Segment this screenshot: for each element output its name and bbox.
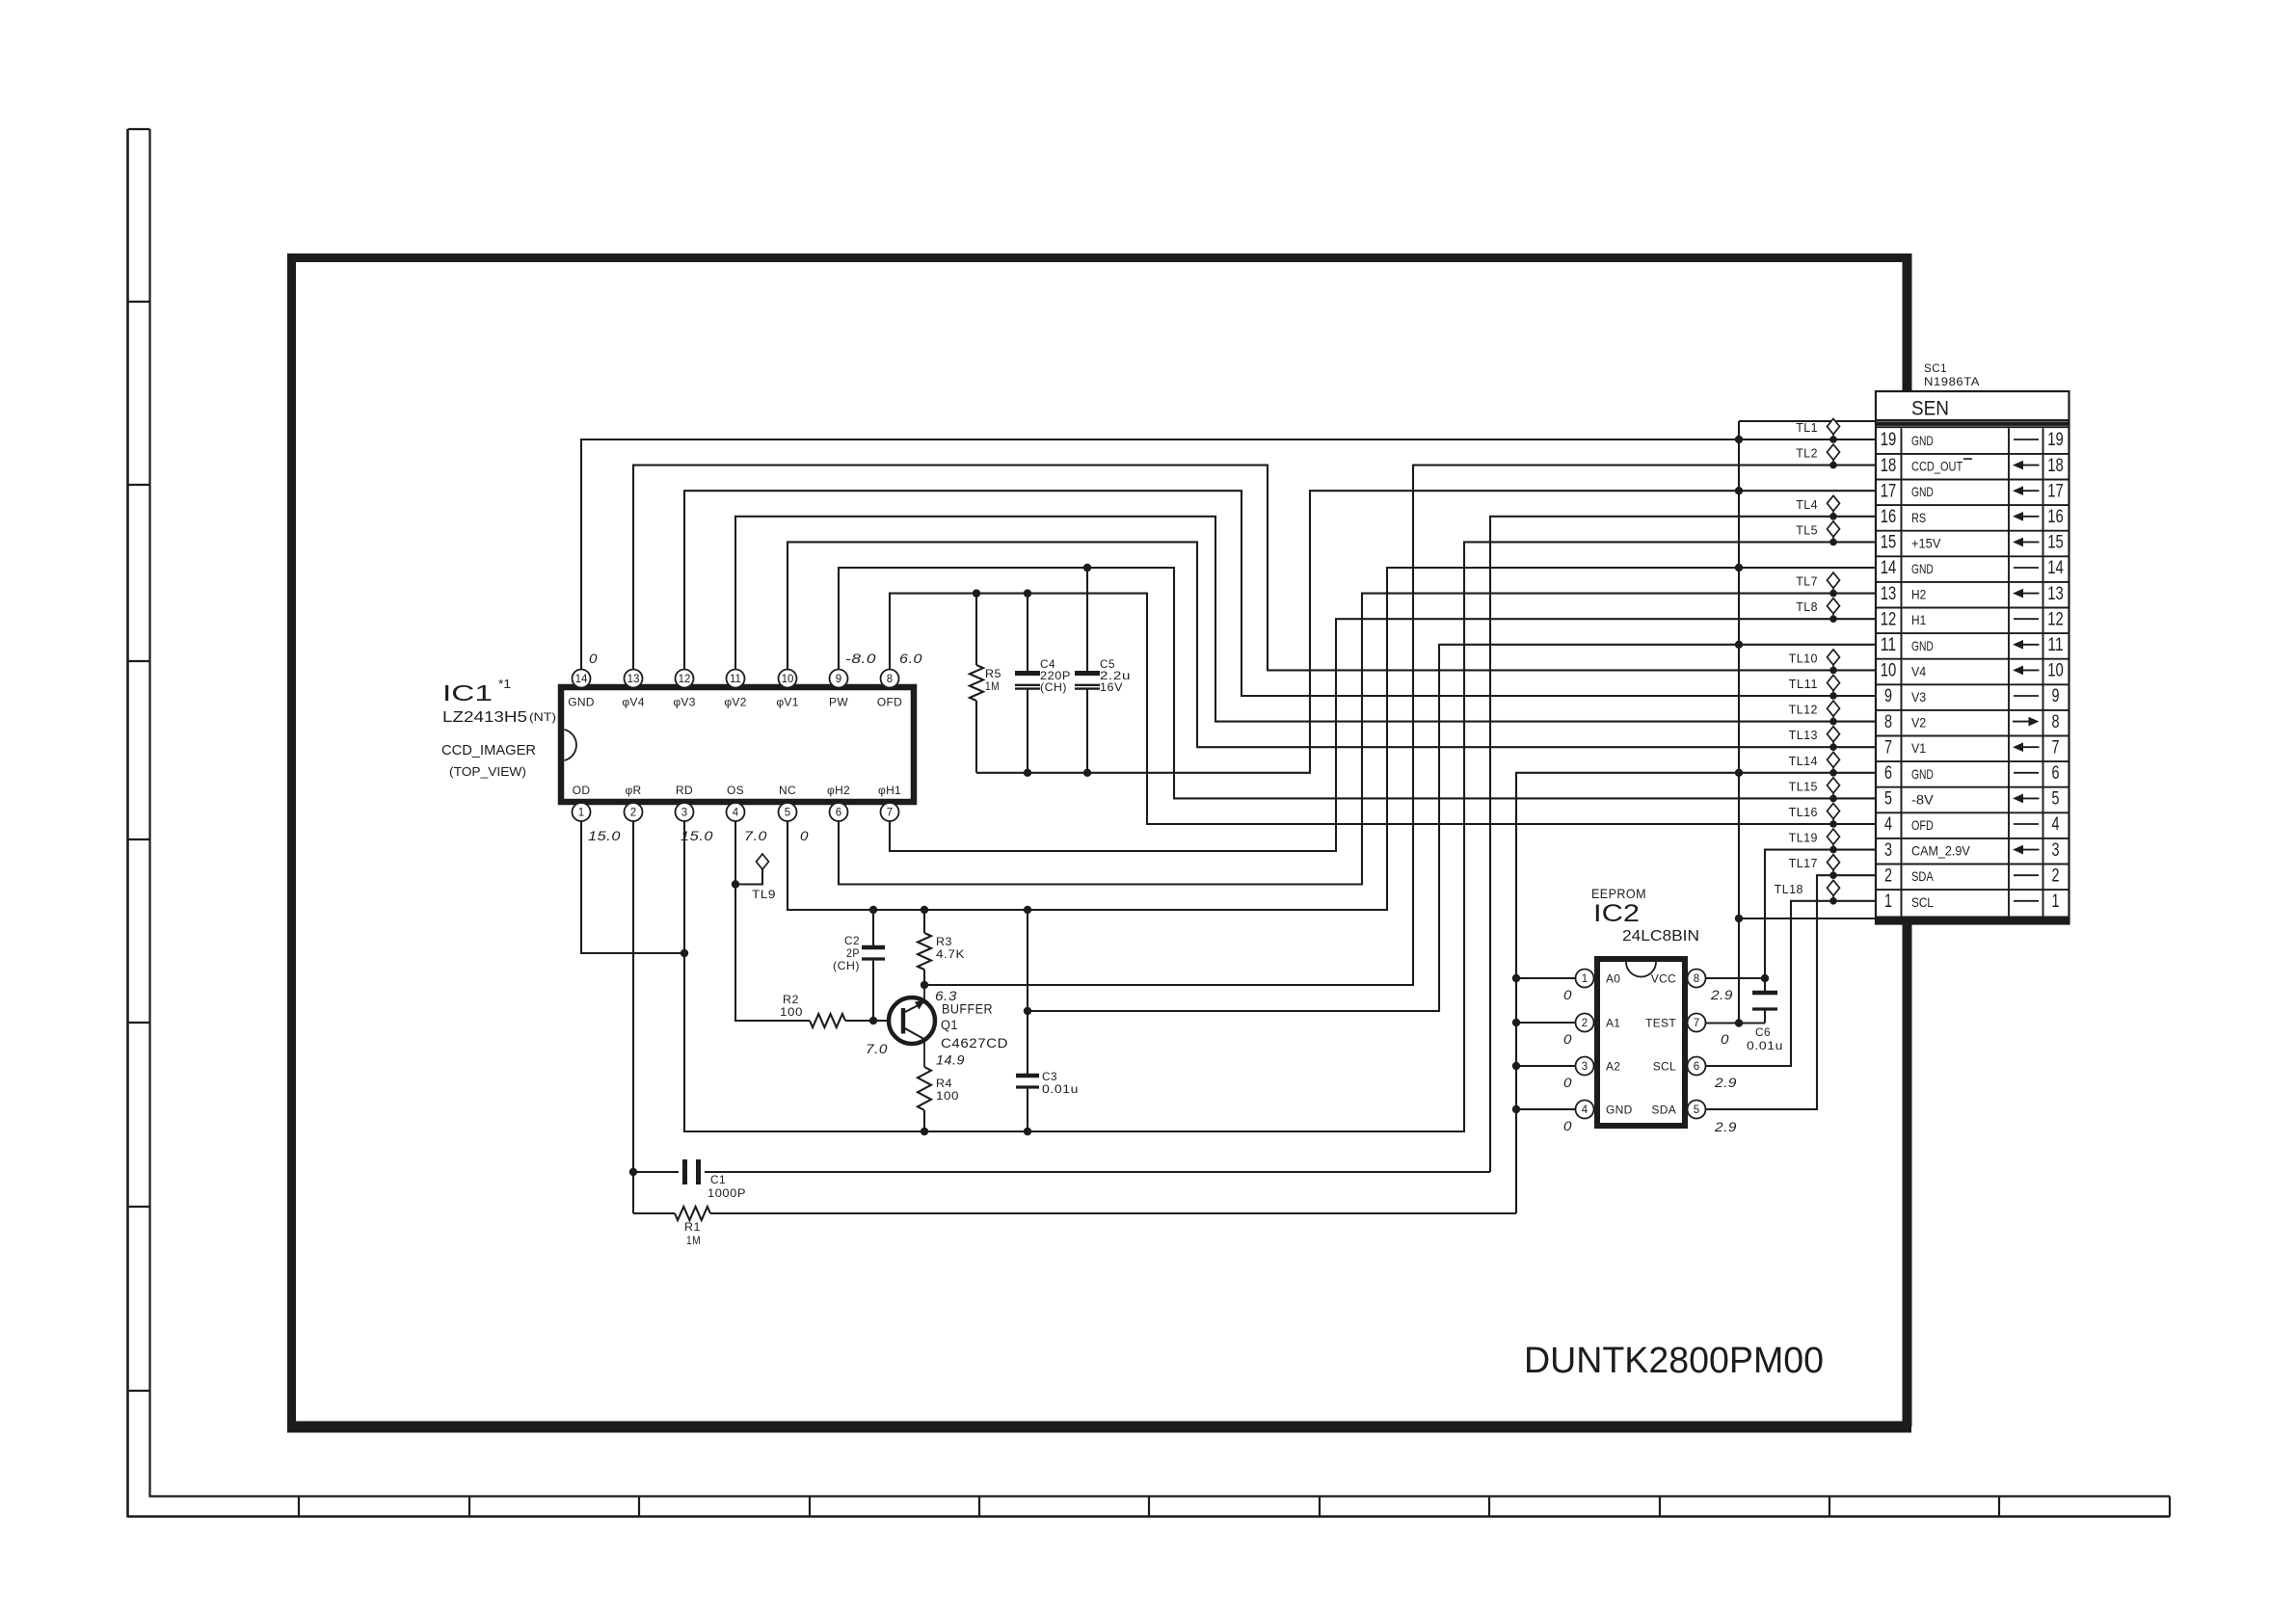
svg-text:5: 5 xyxy=(785,808,790,819)
svg-text:14: 14 xyxy=(1881,558,1897,578)
resistor R5 1M xyxy=(975,594,977,665)
svg-text:0: 0 xyxy=(800,828,809,843)
test point TL8 on SEN row 12 xyxy=(1828,599,1840,614)
IC2 pin 5 circle (SDA) xyxy=(1688,1101,1706,1119)
SEN row 17 direction mark xyxy=(2020,490,2040,492)
svg-text:A2: A2 xyxy=(1606,1060,1620,1074)
svg-text:12: 12 xyxy=(1881,609,1897,629)
wire R1 / IC2 ground to SEN row 6 GND xyxy=(1516,773,1876,1213)
IC2 pin 2 circle (A1) xyxy=(1576,1014,1594,1032)
svg-text:15.0: 15.0 xyxy=(681,828,713,843)
IC1 pin 6 circle (φH2) xyxy=(830,803,848,821)
svg-text:C1: C1 xyxy=(710,1173,726,1186)
svg-text:0: 0 xyxy=(1563,1031,1572,1047)
svg-text:2: 2 xyxy=(2052,865,2060,886)
svg-text:7: 7 xyxy=(2052,737,2060,758)
svg-text:3: 3 xyxy=(681,808,687,819)
svg-text:7.0: 7.0 xyxy=(744,828,767,843)
capacitor C6 0.01u xyxy=(1764,978,1766,993)
IC1 pin 11 circle (φV2) xyxy=(727,670,745,688)
svg-text:6: 6 xyxy=(2052,763,2060,784)
wire C1 to SEN row 16 RS xyxy=(1490,517,1876,1172)
SEN row 1 direction mark xyxy=(2014,900,2039,902)
svg-text:0.01u: 0.01u xyxy=(1747,1039,1783,1052)
test point TL10 on SEN row 10 xyxy=(1828,650,1840,665)
svg-text:φR: φR xyxy=(625,784,641,797)
svg-text:1000P: 1000P xyxy=(707,1186,746,1200)
svg-text:14: 14 xyxy=(2047,558,2064,578)
svg-text:(CH): (CH) xyxy=(833,959,860,972)
connector stem lower (border right side below SEN) xyxy=(1903,923,1912,1426)
wire IC1 pin11 phiV2 to SEN row 8 V2 xyxy=(735,517,1876,722)
svg-text:19: 19 xyxy=(2047,430,2064,450)
SEN row 19 direction mark xyxy=(2014,439,2039,440)
IC1 index notch xyxy=(565,730,576,760)
svg-text:SCL: SCL xyxy=(1911,894,1934,910)
svg-text:19: 19 xyxy=(1881,430,1897,450)
svg-text:TL16: TL16 xyxy=(1789,806,1818,819)
svg-text:4.7K: 4.7K xyxy=(936,947,965,961)
svg-text:2.9: 2.9 xyxy=(1714,1119,1737,1134)
wire IC1 pin6 phiH2 to SEN row 13 H2 xyxy=(839,594,1876,885)
svg-text:17: 17 xyxy=(2047,481,2064,501)
svg-text:8: 8 xyxy=(1694,973,1699,985)
svg-text:5: 5 xyxy=(1694,1104,1699,1116)
IC2 pin 4 circle (GND) xyxy=(1576,1101,1594,1119)
SEN row 18 direction mark xyxy=(2020,465,2040,466)
svg-text:NC: NC xyxy=(779,784,796,797)
test point TL18 on SEN row 1 xyxy=(1828,880,1840,895)
svg-text:2P: 2P xyxy=(846,946,860,960)
svg-text:SCL: SCL xyxy=(1653,1060,1676,1074)
wire IC1 pin8 OFD to SEN row 4 OFD xyxy=(890,594,1876,824)
SEN row 3 direction mark xyxy=(2020,849,2040,851)
svg-text:(NT): (NT) xyxy=(529,710,556,724)
svg-text:GND: GND xyxy=(1911,484,1934,499)
svg-text:2: 2 xyxy=(1884,865,1892,886)
wire IC1 pin3 RD / R4 / C3 rail to SEN row 15 +15V xyxy=(684,542,1876,1131)
svg-text:IC2: IC2 xyxy=(1593,900,1640,927)
svg-text:6: 6 xyxy=(836,808,841,819)
svg-text:4: 4 xyxy=(1884,814,1892,835)
svg-text:GND: GND xyxy=(1911,561,1934,576)
SEN row 16 direction mark xyxy=(2020,516,2040,518)
svg-text:GND: GND xyxy=(1911,766,1934,782)
svg-text:H2: H2 xyxy=(1911,587,1926,602)
svg-text:4: 4 xyxy=(733,808,739,819)
svg-text:RD: RD xyxy=(676,784,693,797)
svg-text:10: 10 xyxy=(782,674,794,685)
svg-text:1: 1 xyxy=(1884,891,1892,912)
wire IC2 TEST to C6 bottom and GND bus xyxy=(1705,1022,1765,1024)
svg-text:N1986TA: N1986TA xyxy=(1924,375,1980,388)
capacitor C3 0.01u xyxy=(1024,906,1031,914)
svg-text:R1: R1 xyxy=(684,1220,701,1234)
svg-text:PW: PW xyxy=(829,696,848,709)
IC2 pin 3 circle (A2) xyxy=(1576,1057,1594,1076)
svg-text:6: 6 xyxy=(1884,763,1892,784)
svg-text:V2: V2 xyxy=(1911,715,1926,731)
wire IC1 pin9 PW to SEN row 5 -8V xyxy=(839,568,1876,798)
svg-text:TL18: TL18 xyxy=(1775,883,1803,896)
svg-text:1: 1 xyxy=(1582,973,1588,985)
sheet border frame xyxy=(287,253,1911,262)
SEN row 10 direction mark xyxy=(2020,669,2040,671)
svg-text:15.0: 15.0 xyxy=(588,828,621,843)
svg-text:TL7: TL7 xyxy=(1796,575,1818,589)
junction GND bus to SEN row 6 xyxy=(1735,769,1743,777)
svg-text:2.9: 2.9 xyxy=(1710,987,1733,1002)
test point TL1 on SEN row 19 xyxy=(1828,419,1840,435)
SEN row 12 direction mark xyxy=(2014,618,2039,620)
test point TL2 on SEN row 18 xyxy=(1828,444,1840,460)
wire IC2 pin 2 stub xyxy=(1516,1022,1576,1024)
svg-text:GND: GND xyxy=(1606,1104,1633,1117)
svg-text:13: 13 xyxy=(1881,584,1897,604)
svg-text:8: 8 xyxy=(1884,712,1892,732)
svg-text:11: 11 xyxy=(2047,635,2064,655)
IC1 pin 5 circle (NC) xyxy=(779,803,797,821)
junction GND bus to SEN row 17 xyxy=(1735,487,1743,494)
svg-text:16V: 16V xyxy=(1100,680,1123,694)
SEN row 11 direction mark xyxy=(2020,644,2040,646)
connector stem upper (border right side above SEN) xyxy=(1903,253,1912,391)
SEN row 13 direction mark xyxy=(2020,593,2040,595)
svg-text:CCD_IMAGER: CCD_IMAGER xyxy=(441,742,536,758)
svg-text:GND: GND xyxy=(1911,433,1934,448)
node Q1 emitter junction xyxy=(921,981,928,989)
resistor R3 4.7K xyxy=(921,906,928,914)
svg-text:IC1: IC1 xyxy=(442,680,493,705)
wire IC2 pin 3 stub xyxy=(1516,1065,1576,1067)
svg-text:7.0: 7.0 xyxy=(866,1041,888,1056)
svg-text:7: 7 xyxy=(1884,737,1892,758)
wire IC1 pin5 NC rail to SEN row 14 GND xyxy=(788,568,1876,910)
left margin ruler xyxy=(126,129,129,1518)
svg-text:10: 10 xyxy=(2047,661,2064,681)
svg-text:TL1: TL1 xyxy=(1796,421,1818,435)
capacitor C5 2.2u 16V xyxy=(1086,568,1088,672)
wire IC2 VCC to CAM_2.9V SEN row 3 xyxy=(1705,977,1765,979)
svg-text:TL14: TL14 xyxy=(1789,755,1818,768)
IC1 pin 3 circle (RD) xyxy=(676,803,694,821)
IC2 pin 1 circle (A0) xyxy=(1576,970,1594,988)
svg-text:2.9: 2.9 xyxy=(1714,1075,1737,1090)
test point TL11 on SEN row 9 xyxy=(1828,676,1840,691)
svg-text:8: 8 xyxy=(2052,712,2060,732)
svg-text:CCD_OUT: CCD_OUT xyxy=(1911,459,1963,474)
svg-text:4: 4 xyxy=(1582,1104,1589,1116)
wire IC1 pin10 phiV1 to SEN row 7 V1 xyxy=(788,542,1876,747)
svg-text:OD: OD xyxy=(573,784,591,797)
svg-text:OS: OS xyxy=(727,784,744,797)
svg-text:1M: 1M xyxy=(985,679,1000,693)
svg-text:GND: GND xyxy=(568,696,595,709)
capacitor C1 1000P xyxy=(633,1171,679,1173)
svg-text:V1: V1 xyxy=(1911,740,1926,756)
svg-text:+15V: +15V xyxy=(1911,535,1941,550)
svg-text:8: 8 xyxy=(887,674,893,685)
IC1 pin 14 circle (GND) xyxy=(573,670,591,688)
svg-text:100: 100 xyxy=(936,1089,959,1103)
IC1 pin 7 circle (φH1) xyxy=(881,803,899,821)
IC1 pin 4 circle (OS) xyxy=(727,803,745,821)
svg-text:DUNTK2800PM00: DUNTK2800PM00 xyxy=(1524,1341,1824,1381)
svg-text:0: 0 xyxy=(589,651,598,666)
resistor R4 100 xyxy=(918,1067,931,1110)
SEN row 7 direction mark xyxy=(2020,746,2040,748)
svg-text:BUFFER: BUFFER xyxy=(942,1002,993,1017)
svg-text:EEPROM: EEPROM xyxy=(1591,886,1646,901)
svg-text:TL12: TL12 xyxy=(1789,704,1818,717)
svg-text:-8.0: -8.0 xyxy=(845,651,876,666)
junction GND bus at table bottom xyxy=(1735,915,1743,922)
svg-text:11: 11 xyxy=(730,674,741,685)
svg-text:18: 18 xyxy=(1881,456,1897,476)
svg-text:C2: C2 xyxy=(844,934,860,947)
svg-text:14.9: 14.9 xyxy=(936,1052,965,1068)
svg-text:9: 9 xyxy=(1884,686,1892,706)
IC2 pin 8 circle (VCC) xyxy=(1688,970,1706,988)
test point TL5 on SEN row 15 xyxy=(1828,521,1840,537)
IC1 pin 1 circle (OD) xyxy=(573,803,591,821)
IC2 index notch xyxy=(1626,962,1656,976)
svg-text:OFD: OFD xyxy=(1911,817,1934,833)
wire IC1 pin4 OS to R2 and Q1 base xyxy=(735,821,810,1021)
wire C3 top node to SEN row 11 GND xyxy=(1024,1007,1031,1015)
svg-text:OFD: OFD xyxy=(877,696,902,709)
wire IC1 pin1 OD to pin3 rail xyxy=(581,821,684,953)
wire IC1 pin14 GND to SEN row 19 xyxy=(581,439,1876,670)
test point TL16 on SEN row 4 xyxy=(1828,804,1840,819)
capacitor C2 2P (CH) xyxy=(869,906,877,914)
svg-text:1: 1 xyxy=(2052,891,2060,912)
svg-text:A1: A1 xyxy=(1606,1017,1620,1030)
svg-text:11: 11 xyxy=(1881,635,1897,655)
IC1 pin 12 circle (φV3) xyxy=(676,670,694,688)
junction GND bus to SEN row 14 xyxy=(1735,564,1743,572)
SEN row 6 direction mark xyxy=(2014,772,2039,774)
connector SEN column dividers xyxy=(1901,428,1903,916)
svg-text:12: 12 xyxy=(679,674,691,685)
IC1 body LZ2413H5 CCD imager xyxy=(561,687,914,802)
SEN row 2 direction mark xyxy=(2014,874,2039,876)
connector SEN row divider lines xyxy=(1876,453,2069,455)
transistor Q1 C4627CD buffer xyxy=(869,1017,877,1024)
svg-text:C6: C6 xyxy=(1755,1025,1771,1039)
IC2 pin 7 circle (TEST) xyxy=(1688,1014,1706,1032)
svg-text:13: 13 xyxy=(627,674,640,685)
svg-text:LZ2413H5: LZ2413H5 xyxy=(442,709,527,726)
wire IC1 pin7 phiH1 to SEN row 12 H1 xyxy=(890,619,1876,851)
svg-text:TL17: TL17 xyxy=(1789,857,1818,870)
svg-text:17: 17 xyxy=(1881,481,1897,501)
test point TL4 on SEN row 16 xyxy=(1828,495,1840,511)
svg-text:CAM_2.9V: CAM_2.9V xyxy=(1911,843,1970,859)
svg-text:16: 16 xyxy=(2047,507,2064,527)
SEN row 5 direction mark xyxy=(2020,797,2040,799)
svg-text:0.01u: 0.01u xyxy=(1042,1082,1079,1096)
svg-text:TL9: TL9 xyxy=(752,888,776,901)
connector SEN table frame xyxy=(1876,391,2069,924)
SEN row 4 direction mark xyxy=(2014,823,2039,825)
junction GND bus to SEN row 11 xyxy=(1735,641,1743,649)
svg-text:R5: R5 xyxy=(985,667,1001,680)
IC2 pin 6 circle (SCL) xyxy=(1688,1057,1706,1076)
svg-text:15: 15 xyxy=(2047,533,2064,553)
svg-text:0: 0 xyxy=(1563,1118,1572,1133)
IC2 body 24LC8BIN EEPROM xyxy=(1597,959,1685,1126)
svg-text:18: 18 xyxy=(2047,456,2064,476)
GND bus vertical at connector xyxy=(1738,421,1740,1024)
svg-text:2: 2 xyxy=(1582,1018,1588,1029)
svg-text:TL2: TL2 xyxy=(1796,447,1818,461)
wire Q1 emitter CCD_OUT to SEN row 18 xyxy=(924,466,1876,985)
svg-text:φH2: φH2 xyxy=(827,784,850,797)
svg-text:0: 0 xyxy=(1563,987,1572,1002)
wire IC1 pin13 phiV4 to SEN row 10 V4 xyxy=(633,466,1876,671)
svg-text:3: 3 xyxy=(1884,840,1892,861)
svg-text:7: 7 xyxy=(1694,1018,1699,1029)
test point TL17 on SEN row 2 xyxy=(1828,855,1840,870)
svg-text:24LC8BIN: 24LC8BIN xyxy=(1622,928,1699,945)
IC1 pin 2 circle (φR) xyxy=(625,803,643,821)
svg-text:SC1: SC1 xyxy=(1924,361,1947,375)
svg-text:2: 2 xyxy=(630,808,636,819)
svg-text:TL15: TL15 xyxy=(1789,780,1818,793)
wire IC1 pin2 phiR down to C1/R1 xyxy=(632,821,634,1213)
svg-text:(CH): (CH) xyxy=(1040,680,1067,694)
svg-text:3: 3 xyxy=(1582,1061,1588,1073)
test point TL13 on SEN row 7 xyxy=(1828,727,1840,742)
svg-text:SDA: SDA xyxy=(1651,1104,1676,1117)
SEN row 8 direction mark xyxy=(2013,721,2032,723)
svg-text:A0: A0 xyxy=(1606,972,1620,986)
svg-text:R2: R2 xyxy=(783,993,799,1006)
svg-text:16: 16 xyxy=(1881,507,1897,527)
svg-text:φV2: φV2 xyxy=(724,696,746,709)
svg-text:TL5: TL5 xyxy=(1796,523,1818,537)
svg-text:0: 0 xyxy=(1721,1031,1729,1047)
svg-text:*1: *1 xyxy=(498,677,511,691)
SEN row 15 direction mark xyxy=(2020,541,2040,543)
svg-text:V4: V4 xyxy=(1911,663,1926,678)
svg-text:TL10: TL10 xyxy=(1789,652,1818,665)
svg-text:5: 5 xyxy=(2052,789,2060,810)
IC1 pin 13 circle (φV4) xyxy=(625,670,643,688)
svg-text:12: 12 xyxy=(2047,609,2064,629)
svg-text:1M: 1M xyxy=(686,1234,701,1247)
svg-text:9: 9 xyxy=(836,674,841,685)
bottom margin ruler xyxy=(128,1515,2171,1518)
svg-text:R3: R3 xyxy=(936,935,952,948)
svg-text:SEN: SEN xyxy=(1911,397,1949,420)
wire IC2 pin 1 stub xyxy=(1516,977,1576,979)
svg-text:14: 14 xyxy=(575,674,588,685)
wire IC1 pin12 phiV3 to SEN row 9 V3 xyxy=(684,491,1876,696)
svg-text:TL13: TL13 xyxy=(1789,729,1818,742)
IC1 pin 8 circle (OFD) xyxy=(881,670,899,688)
svg-text:C3: C3 xyxy=(1042,1070,1057,1083)
svg-text:0: 0 xyxy=(1563,1075,1572,1090)
SEN row 14 direction mark xyxy=(2014,567,2039,569)
svg-text:13: 13 xyxy=(2047,584,2064,604)
svg-text:φV3: φV3 xyxy=(673,696,695,709)
svg-text:SDA: SDA xyxy=(1911,868,1934,884)
svg-text:VCC: VCC xyxy=(1651,972,1676,986)
wire IC2 pin 4 stub xyxy=(1516,1108,1576,1110)
svg-text:100: 100 xyxy=(780,1005,803,1019)
test point TL19 on SEN row 3 xyxy=(1828,829,1840,844)
svg-text:TL4: TL4 xyxy=(1796,498,1818,512)
svg-text:6: 6 xyxy=(1694,1061,1699,1073)
svg-text:TL19: TL19 xyxy=(1789,832,1818,845)
svg-text:9: 9 xyxy=(2052,686,2060,706)
wire R5/C4/C5 ground rail to SEN row 17 GND xyxy=(976,491,1876,773)
svg-text:TEST: TEST xyxy=(1645,1017,1676,1030)
resistor R2 100 xyxy=(810,1014,845,1027)
svg-text:5: 5 xyxy=(1884,789,1892,810)
svg-text:H1: H1 xyxy=(1911,612,1926,627)
svg-text:φH1: φH1 xyxy=(878,784,901,797)
svg-text:3: 3 xyxy=(2052,840,2060,861)
svg-text:TL11: TL11 xyxy=(1789,678,1818,691)
IC1 pin 10 circle (φV1) xyxy=(779,670,797,688)
svg-text:7: 7 xyxy=(887,808,893,819)
capacitor C4 220P (CH) xyxy=(1027,594,1028,672)
test point TL12 on SEN row 8 xyxy=(1828,701,1840,716)
svg-text:TL8: TL8 xyxy=(1796,600,1818,614)
svg-text:V3: V3 xyxy=(1911,689,1926,705)
svg-text:15: 15 xyxy=(1881,533,1897,553)
svg-text:6.0: 6.0 xyxy=(899,651,922,666)
svg-text:10: 10 xyxy=(1881,661,1897,681)
test point TL9 xyxy=(732,880,739,888)
wire IC2 SDA to SEN row 2 SDA xyxy=(1705,875,1876,1109)
svg-text:-8V: -8V xyxy=(1911,791,1934,807)
svg-text:4: 4 xyxy=(2052,814,2060,835)
svg-text:(TOP_VIEW): (TOP_VIEW) xyxy=(449,765,526,779)
connector SEN bottom band xyxy=(1876,917,2069,924)
wire IC2 SCL to SEN row 1 SCL xyxy=(1705,901,1876,1066)
IC1 pin 9 circle (PW) xyxy=(830,670,848,688)
svg-text:C4627CD: C4627CD xyxy=(941,1036,1008,1051)
svg-text:RS: RS xyxy=(1911,510,1926,525)
svg-text:φV4: φV4 xyxy=(622,696,644,709)
test point TL15 on SEN row 5 xyxy=(1828,778,1840,793)
SEN row 9 direction mark xyxy=(2014,695,2039,697)
test point TL14 on SEN row 6 xyxy=(1828,752,1840,767)
resistor R1 1M xyxy=(633,1212,675,1214)
svg-text:φV1: φV1 xyxy=(776,696,798,709)
test point TL7 on SEN row 13 xyxy=(1828,572,1840,588)
junction GND bus to SEN row 19 xyxy=(1735,436,1743,443)
svg-text:R4: R4 xyxy=(936,1077,952,1090)
svg-text:1: 1 xyxy=(578,808,584,819)
svg-text:GND: GND xyxy=(1911,638,1934,653)
svg-text:Q1: Q1 xyxy=(941,1018,958,1032)
